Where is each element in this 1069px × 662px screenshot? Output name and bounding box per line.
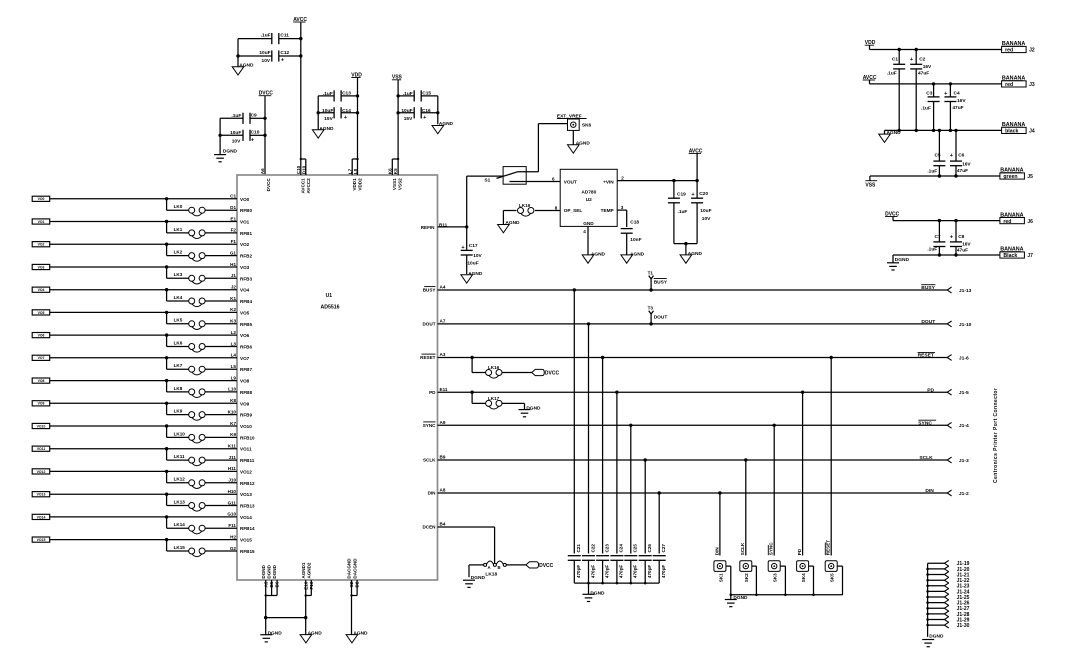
svg-text:G11: G11: [228, 500, 237, 505]
wire AVCC bus to J3: [870, 82, 1002, 85]
op-amp U1 AD5516 main DAC body: [237, 175, 438, 580]
svg-text:U2: U2: [586, 197, 592, 203]
svg-text:.1uF: .1uF: [231, 113, 241, 119]
svg-text:H10: H10: [228, 489, 237, 494]
connector VO6 input terminal: [32, 333, 50, 338]
wire VO3 to U1 pin H1: [50, 262, 250, 270]
svg-text:RFB6: RFB6: [240, 345, 252, 350]
connector pin J1-6: [947, 355, 969, 362]
capacitor C16 10uF 15V (polar): [396, 107, 439, 122]
jumper LK2: [167, 244, 253, 261]
svg-text:10uF: 10uF: [322, 108, 333, 114]
svg-text:C6: C6: [958, 153, 964, 159]
net label SCLK at J1-3: [919, 455, 933, 461]
svg-text:VSS1: VSS1: [392, 178, 397, 190]
svg-text:RESET: RESET: [420, 355, 436, 360]
svg-text:RFB3: RFB3: [240, 276, 252, 281]
svg-text:VO7: VO7: [240, 356, 250, 361]
svg-text:470pF: 470pF: [619, 565, 624, 578]
wire DIN row pin A8: [428, 488, 948, 496]
connector VO2 input terminal: [32, 242, 50, 247]
ground AGND below U2 GND: [582, 251, 605, 263]
svg-text:red: red: [1005, 82, 1013, 88]
svg-text:VO3: VO3: [240, 265, 250, 270]
wire C21-C27 common ground bus: [574, 582, 659, 585]
svg-text:C7: C7: [934, 234, 940, 240]
svg-text:K6: K6: [387, 168, 392, 174]
connector VO7 input terminal: [32, 355, 50, 360]
connector SK4 PD socket: [797, 392, 814, 595]
svg-text:C10: C10: [251, 130, 260, 136]
svg-text:470pF: 470pF: [633, 565, 638, 578]
connector pin J1-23: [944, 583, 969, 590]
jumper LK9: [167, 403, 253, 420]
wire DOUT row pin A7: [422, 319, 947, 327]
svg-text:RFB5: RFB5: [240, 322, 252, 327]
net label DVCC (top left supply): [259, 91, 274, 175]
svg-text:+VIN: +VIN: [603, 180, 614, 185]
svg-text:DGND: DGND: [929, 634, 944, 640]
svg-text:BUSY: BUSY: [921, 285, 935, 291]
svg-text:J1-5: J1-5: [959, 390, 969, 396]
svg-text:DGND: DGND: [895, 257, 910, 263]
svg-text:VO6: VO6: [38, 334, 45, 338]
svg-text:C4: C4: [954, 91, 960, 97]
ground AGND below U1: [300, 618, 322, 643]
capacitor C7 .1uF: [927, 221, 945, 255]
svg-text:C17: C17: [469, 243, 478, 249]
svg-text:F2: F2: [231, 228, 237, 233]
svg-text:RESET: RESET: [826, 540, 831, 556]
svg-text:6: 6: [552, 176, 555, 181]
ground DGND at LK18: [463, 565, 485, 588]
ground AGND below C18: [621, 251, 645, 263]
wire VO13 to U1 pin H10: [50, 489, 252, 497]
svg-text:F11: F11: [228, 523, 236, 528]
svg-text:J1: J1: [231, 273, 237, 278]
pins A5 B5 B6 DGND bottom pins of U1: [261, 564, 280, 617]
svg-text:DGND: DGND: [268, 630, 283, 636]
svg-text:C1: C1: [230, 194, 236, 199]
jumper LK4: [167, 290, 253, 307]
capacitor C26 470pF: [639, 460, 652, 583]
svg-text:VO2: VO2: [38, 243, 45, 247]
jumper LK17 PD pulldown: [472, 392, 524, 409]
svg-text:DOUT: DOUT: [422, 322, 435, 327]
svg-text:VO4: VO4: [240, 288, 250, 293]
svg-text:C20: C20: [699, 191, 708, 197]
svg-text:C10: C10: [296, 165, 301, 174]
jumper LK10: [167, 426, 255, 443]
svg-text:VOUT: VOUT: [564, 180, 577, 185]
capacitor C17 10uF 10V (polar): [461, 227, 483, 274]
svg-text:DIN: DIN: [714, 547, 719, 556]
svg-text:AVCC1: AVCC1: [301, 178, 306, 194]
svg-text:B9: B9: [440, 455, 446, 460]
wire C13-C14 left rail: [317, 96, 319, 130]
svg-text:LK0: LK0: [174, 204, 183, 209]
svg-text:C14: C14: [342, 108, 351, 114]
capacitor C25 470pF: [624, 425, 637, 583]
svg-text:A4: A4: [440, 285, 446, 290]
svg-text:VO9: VO9: [240, 401, 250, 406]
svg-text:J2: J2: [231, 285, 237, 290]
svg-text:VO4: VO4: [38, 288, 45, 292]
wire PD row pin E11: [429, 387, 947, 395]
svg-text:10uF: 10uF: [700, 208, 711, 214]
net label VDD (top): [351, 72, 362, 159]
capacitor C2 47uF 16V (polar): [910, 50, 932, 131]
svg-text:DGND: DGND: [272, 564, 277, 578]
svg-text:10uF: 10uF: [401, 108, 412, 114]
net label BUSY at J1-13: [921, 285, 935, 291]
jumper LK13: [167, 494, 255, 511]
connector VO0 input terminal: [32, 196, 50, 201]
jumper LK3: [167, 267, 253, 284]
connector VO12 input terminal: [32, 469, 50, 474]
capacitor C19 .1uF: [668, 181, 688, 244]
svg-text:RFB2: RFB2: [240, 254, 252, 259]
capacitor C12 10uF 10V (polar): [236, 50, 302, 64]
svg-text:VO9: VO9: [38, 402, 45, 406]
jumper LK1: [167, 222, 253, 239]
svg-text:LK3: LK3: [174, 272, 183, 277]
jumper LK11: [167, 449, 255, 466]
svg-text:VO0: VO0: [240, 197, 250, 202]
svg-text:VO6: VO6: [240, 333, 250, 338]
svg-text:LK10: LK10: [174, 431, 186, 436]
svg-text:A9: A9: [440, 420, 446, 425]
svg-text:PD: PD: [797, 548, 802, 555]
svg-text:C2: C2: [919, 56, 925, 62]
connector J3 BANANA red: [1002, 76, 1035, 89]
svg-text:SK4: SK4: [801, 573, 806, 582]
svg-text:LK18: LK18: [485, 571, 497, 577]
svg-text:VO8: VO8: [38, 379, 45, 383]
wire VO9 to U1 pin K8: [50, 398, 250, 406]
wire VO0 to U1 pin C1: [50, 194, 250, 202]
svg-text:C23: C23: [604, 544, 609, 553]
svg-text:C19: C19: [677, 191, 686, 197]
svg-text:BUSY: BUSY: [654, 279, 668, 285]
wire SYNC row pin A9: [423, 420, 947, 428]
svg-text:J1-10: J1-10: [959, 322, 972, 328]
svg-text:C26: C26: [647, 544, 652, 553]
connector VO9 input terminal: [32, 401, 50, 406]
svg-text:C15: C15: [422, 90, 431, 96]
svg-text:RESET: RESET: [918, 353, 934, 359]
svg-text:47uF: 47uF: [957, 248, 968, 254]
svg-text:K5: K5: [393, 168, 398, 174]
svg-text:10nF: 10nF: [630, 237, 641, 243]
svg-text:K8: K8: [230, 398, 236, 403]
svg-text:TEMP: TEMP: [601, 208, 614, 213]
svg-text:U1: U1: [326, 293, 333, 299]
svg-text:4: 4: [583, 229, 586, 234]
svg-text:D1: D1: [230, 205, 236, 210]
svg-text:VO0: VO0: [38, 197, 45, 201]
svg-text:16V: 16V: [962, 241, 971, 247]
capacitor C6 47uF 16V (polar): [950, 130, 972, 176]
connector J5 BANANA green: [1000, 168, 1033, 181]
svg-text:RFB1: RFB1: [240, 231, 252, 236]
svg-text:B5: B5: [269, 581, 274, 587]
svg-text:C1: C1: [892, 56, 898, 62]
capacitor C18 10nF: [621, 220, 642, 255]
jumper LK18 DCEN select: [469, 561, 526, 577]
svg-text:H1: H1: [230, 262, 236, 267]
svg-text:DCEN: DCEN: [422, 525, 436, 530]
ground DGND below SK1-SK5: [725, 595, 748, 607]
svg-text:VDD1: VDD1: [352, 178, 357, 191]
connector VO4 input terminal: [32, 287, 50, 292]
ground AGND below SK6: [568, 130, 591, 153]
svg-text:DGND: DGND: [261, 564, 266, 578]
connector pin J1-13: [947, 287, 971, 294]
wire C15-C16 right rail: [437, 96, 439, 124]
svg-text:10uF: 10uF: [467, 260, 478, 266]
connector pin J1-3: [947, 457, 969, 464]
svg-text:J1-4: J1-4: [959, 423, 969, 429]
svg-text:SCLK: SCLK: [740, 542, 745, 555]
connector VO14 input terminal: [32, 514, 50, 519]
svg-text:VDD2: VDD2: [358, 178, 363, 191]
ground AGND below C13/C14: [312, 126, 334, 138]
svg-text:A7: A7: [440, 319, 446, 324]
svg-text:J1-2: J1-2: [959, 491, 969, 497]
svg-text:.1uF: .1uF: [887, 71, 897, 77]
wire VSS bus to J5: [870, 174, 1000, 177]
svg-text:VO14: VO14: [37, 515, 46, 519]
svg-text:L8: L8: [353, 168, 358, 174]
svg-text:16V: 16V: [957, 98, 966, 104]
capacitor C4 47uF 16V (polar): [944, 84, 966, 130]
ground AGND below C17: [461, 271, 483, 283]
svg-text:RFB12: RFB12: [240, 481, 255, 486]
svg-text:VO13: VO13: [37, 493, 46, 497]
svg-text:DGND: DGND: [223, 149, 238, 155]
svg-text:L3: L3: [231, 341, 237, 346]
svg-text:VO7: VO7: [38, 356, 45, 360]
ground AGND below C19/C20: [680, 251, 702, 263]
svg-text:10V: 10V: [262, 58, 271, 64]
svg-text:470pF: 470pF: [604, 565, 609, 578]
pin A6 DVCC top pin of U1: [260, 168, 271, 191]
connector pin J1-22: [944, 577, 969, 584]
ground DGND at LK17: [519, 403, 542, 416]
svg-text:D2: D2: [355, 581, 360, 587]
svg-text:.1uF: .1uF: [261, 33, 271, 39]
svg-text:SYNC: SYNC: [769, 542, 774, 555]
net label AVCC (top): [293, 17, 307, 159]
svg-text:LK13: LK13: [174, 499, 186, 504]
jumper LK8: [167, 381, 253, 398]
capacitor C14 10uF 15V (polar): [317, 107, 360, 122]
svg-text:LK16: LK16: [488, 365, 500, 370]
capacitor C27 470pF: [653, 493, 666, 583]
svg-text:A6: A6: [260, 168, 265, 174]
svg-text:RFB4: RFB4: [240, 299, 252, 304]
svg-text:DVCC: DVCC: [545, 371, 560, 377]
svg-text:A3: A3: [440, 352, 446, 357]
wire VO14 to U1 pin G10: [50, 512, 252, 520]
wire BUSY row pin A4: [423, 285, 947, 293]
svg-text:LK6: LK6: [174, 340, 183, 345]
svg-text:E10: E10: [303, 581, 308, 590]
wire C19 C20 to AGND: [674, 242, 697, 255]
svg-text:BUSY: BUSY: [423, 288, 436, 293]
svg-text:LK1: LK1: [174, 227, 183, 232]
connector pin J1-26: [944, 600, 969, 607]
net label DVCC at J6: [885, 211, 900, 220]
capacitor C24 470pF: [610, 392, 623, 583]
pins C10 D10 AVCC1 AVCC2 top pins of U1 with bracket: [296, 158, 311, 194]
svg-text:C27: C27: [661, 544, 666, 553]
net label VSS at J5: [865, 176, 877, 188]
svg-text:SK3: SK3: [773, 573, 778, 582]
svg-text:VO1: VO1: [38, 220, 45, 224]
net label AVCC at J3: [863, 75, 877, 84]
net label AVCC right of U2: [689, 148, 703, 180]
ground DGND below J1 pins: [922, 634, 944, 647]
wire S1 to U2 VOUT pin 6: [526, 176, 560, 181]
wire ground tie DGND-AGND: [264, 616, 307, 619]
svg-text:J1-6: J1-6: [959, 355, 969, 361]
svg-text:J4: J4: [1029, 129, 1035, 135]
capacitor C21 470pF: [568, 290, 581, 583]
svg-text:J10: J10: [228, 478, 236, 483]
capacitor C11 .1uF: [238, 32, 302, 44]
svg-text:T1: T1: [648, 270, 654, 275]
capacitor C10 10uF 10V (polar): [218, 130, 266, 145]
wire RESET row pin A3: [420, 352, 947, 360]
svg-text:J1-13: J1-13: [959, 288, 972, 294]
connector J2 BANANA red: [1002, 41, 1035, 54]
switch S1: [467, 124, 568, 185]
svg-text:470pF: 470pF: [590, 565, 595, 578]
svg-text:DGND: DGND: [526, 405, 541, 411]
svg-text:B: B: [498, 565, 501, 570]
wire SK1-SK5 common ground bus: [730, 594, 843, 597]
connector VO15 input terminal: [32, 537, 50, 542]
jumper LK15: [167, 540, 255, 557]
svg-text:SK1: SK1: [718, 573, 723, 582]
capacitor C23 470pF: [596, 358, 609, 584]
svg-text:DGND: DGND: [267, 564, 272, 578]
svg-text:L10: L10: [228, 387, 236, 392]
svg-text:GND: GND: [583, 221, 594, 226]
net label PD at J1-5: [927, 387, 934, 393]
connector pin J1-4: [947, 422, 969, 429]
wire DVCC bus to J6: [893, 219, 1000, 222]
svg-text:VSS2: VSS2: [398, 178, 403, 190]
svg-text:LK9: LK9: [174, 409, 183, 414]
jumper LK6: [167, 335, 253, 352]
capacitor C1 .1uF: [887, 50, 905, 131]
svg-text:J1-3: J1-3: [959, 458, 969, 464]
jumper LK5: [167, 312, 253, 329]
net label VDD at J2: [865, 40, 876, 49]
wire VO15 to U1 pin H2: [50, 534, 252, 542]
svg-text:C5: C5: [934, 153, 940, 159]
connector pin J1-27: [944, 605, 969, 612]
wire SCLK row pin B9: [423, 455, 947, 463]
svg-text:AGND: AGND: [630, 251, 645, 257]
svg-text:DGND: DGND: [590, 590, 605, 596]
svg-text:DACGND: DACGND: [352, 558, 357, 579]
svg-text:SK5: SK5: [830, 573, 835, 582]
op-amp U2 AD780 voltage reference body: [560, 169, 617, 226]
svg-text:LK14: LK14: [174, 522, 186, 527]
connector VO3 input terminal: [32, 264, 50, 269]
wire J1 ground pins common bus: [926, 563, 944, 637]
svg-text:VO12: VO12: [37, 470, 46, 474]
svg-text:H11: H11: [228, 466, 237, 471]
svg-text:J11: J11: [229, 455, 237, 460]
svg-text:SCLK: SCLK: [423, 458, 436, 463]
connector SK5 RESET socket: [825, 358, 842, 595]
svg-text:VSS: VSS: [865, 182, 876, 188]
ground DGND below C21-C27: [583, 583, 606, 601]
svg-text:D10: D10: [301, 165, 306, 174]
svg-text:K11: K11: [228, 444, 237, 449]
wire VDD bus to J2: [870, 48, 1002, 51]
wire U2 GND pin 4: [583, 226, 588, 255]
svg-text:PD: PD: [429, 390, 436, 395]
svg-text:C16: C16: [422, 108, 431, 114]
svg-text:SYNC: SYNC: [918, 421, 932, 427]
svg-text:A8: A8: [440, 488, 446, 493]
connector VO5 input terminal: [32, 310, 50, 315]
pins C2 D2 DACGND bottom pins of U1: [347, 558, 360, 635]
ground AGND below DACGND: [346, 630, 368, 643]
svg-text:B11: B11: [439, 222, 448, 227]
wire VO11 to U1 pin K11: [50, 444, 252, 452]
wire VO8 to U1 pin L9: [50, 375, 250, 383]
svg-text:DACGND: DACGND: [347, 558, 352, 579]
svg-text:DOUT: DOUT: [921, 319, 935, 325]
jumper LK0: [167, 199, 253, 216]
wire REFIN pin B11 of U1: [421, 176, 469, 230]
svg-text:S1: S1: [484, 178, 490, 184]
svg-text:K2: K2: [230, 307, 236, 312]
svg-text:2: 2: [621, 175, 624, 180]
svg-text:VO12: VO12: [240, 469, 252, 474]
svg-text:LK4: LK4: [174, 295, 183, 300]
ground AGND at J4: [879, 130, 901, 142]
svg-text:RFB10: RFB10: [240, 435, 255, 440]
wire C9-C10 left rail: [219, 118, 221, 154]
text Centronics Printer Port Connector: [993, 388, 999, 483]
svg-text:RFB8: RFB8: [240, 390, 252, 395]
connector pin J1-2: [947, 490, 969, 497]
net label RESET at J1-6: [918, 352, 935, 358]
svg-text:LK2: LK2: [174, 250, 183, 255]
svg-text:15V: 15V: [404, 116, 413, 122]
svg-text:J1-30: J1-30: [957, 623, 970, 629]
svg-text:.1uF: .1uF: [403, 91, 413, 97]
svg-text:VO13: VO13: [240, 492, 252, 497]
svg-text:RFB13: RFB13: [240, 504, 255, 509]
svg-text:G10: G10: [227, 512, 236, 517]
terminal DVCC tag at LK18: [526, 562, 554, 569]
wire DGND bus to J7: [893, 253, 1000, 256]
svg-text:Centronics Printer Port Connec: Centronics Printer Port Connector: [993, 388, 999, 483]
svg-text:VO5: VO5: [240, 310, 250, 315]
svg-text:VO2: VO2: [240, 242, 250, 247]
connector VO8 input terminal: [32, 378, 50, 383]
svg-text:47uF: 47uF: [952, 105, 963, 111]
